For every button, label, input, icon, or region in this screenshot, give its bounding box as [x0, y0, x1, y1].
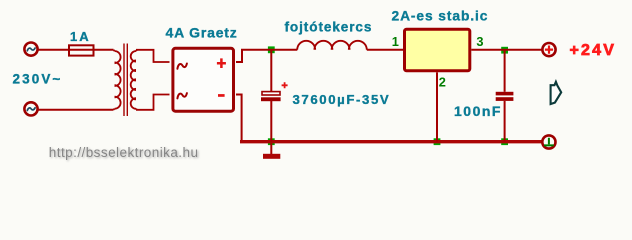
transformer TR1 secondary winding — [131, 50, 137, 110]
capacitor C1 bottom plate — [261, 97, 281, 101]
svg-text:37600µF-35V: 37600µF-35V — [293, 92, 391, 107]
ground terminal symbol — [544, 138, 554, 146]
wire C2 bottom — [504, 101, 506, 142]
bridge ~ input bottom — [177, 93, 187, 98]
svg-text:fojtótekercs: fojtótekercs — [285, 19, 373, 34]
capacitor C2 100nF plate bottom — [496, 97, 514, 101]
choke L1 (fojtotekercs) — [297, 41, 367, 50]
wire pin2 down to rail — [436, 72, 438, 141]
svg-text:3: 3 — [476, 34, 483, 49]
svg-text:4A Graetz: 4A Graetz — [166, 25, 238, 41]
node junction pin2 to rail — [434, 138, 441, 145]
capacitor C2 100nF plate top — [496, 92, 514, 96]
C1 polarity + — [282, 82, 288, 88]
svg-text:230V~: 230V~ — [13, 72, 63, 87]
svg-text:2: 2 — [439, 75, 446, 90]
transformer core — [123, 44, 125, 117]
AC terminal J2 (230V neutral) — [24, 102, 37, 115]
wire C2 top — [504, 50, 506, 92]
svg-text:1A: 1A — [70, 29, 91, 44]
svg-text:http://bsselektronika.hu: http://bsselektronika.hu — [49, 145, 199, 160]
regulator U1 (2A stab IC) — [405, 29, 470, 71]
node junction C1 to rail — [268, 138, 275, 145]
wire secondary bottom to bridge — [136, 95, 170, 110]
svg-text:1: 1 — [392, 34, 399, 49]
wire bridge + to top rail — [236, 50, 403, 62]
ground bar — [263, 154, 280, 159]
transformer TR1 primary winding — [114, 50, 121, 110]
node junction top of C1 — [268, 46, 275, 53]
bridge rectifier B1 (4A Graetz) — [173, 48, 234, 111]
svg-text:2A-es stab.ic: 2A-es stab.ic — [392, 8, 489, 23]
svg-text:+24V: +24V — [570, 42, 617, 59]
ground terminal — [542, 135, 555, 148]
bridge - output mark — [218, 94, 225, 97]
bridge ~ input top — [177, 64, 187, 69]
cursor icon — [551, 82, 562, 104]
node junction top of C2 — [501, 47, 508, 54]
wire bridge - down to bottom rail — [236, 95, 242, 142]
wire pin3 to output — [471, 49, 542, 51]
wire bottom-left: AC source to transformer primary bottom — [38, 109, 114, 111]
capacitor C1 37600uF top plate — [262, 92, 280, 95]
svg-text:100nF: 100nF — [454, 103, 502, 119]
wire C1 bottom — [270, 101, 272, 142]
AC terminal J1 (230V live) — [24, 43, 37, 56]
output terminal + cross — [545, 46, 553, 54]
fuse F1 — [69, 45, 94, 55]
bottom rail (ground bus) — [240, 140, 542, 143]
bridge + output mark — [217, 58, 226, 68]
wire secondary top to bridge — [136, 50, 170, 62]
wire C1 top — [270, 50, 272, 92]
node junction C2 to rail — [501, 138, 508, 145]
wire top-left: AC source to transformer primary top — [38, 49, 114, 51]
ground stub under C1 — [270, 143, 272, 154]
output terminal +24V — [542, 43, 555, 56]
